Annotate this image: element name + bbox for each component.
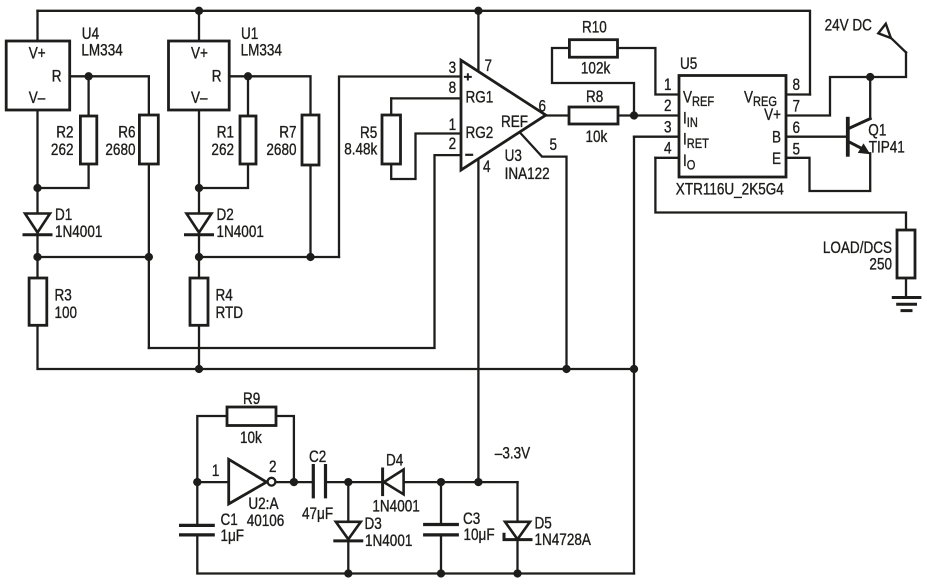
svg-text:3: 3 xyxy=(449,59,457,78)
label U5 pin 7 xyxy=(793,97,801,116)
label R4 value xyxy=(216,304,244,323)
svg-text:R8: R8 xyxy=(586,88,603,107)
wire op-amp REF pin5 down to rail xyxy=(519,132,567,370)
wire U4 V+ riser xyxy=(36,11,38,42)
label R7 designator xyxy=(279,123,296,142)
wire D3 top lead xyxy=(347,482,349,522)
label U5 E xyxy=(772,150,781,169)
label D2 designator xyxy=(217,206,234,225)
svg-text:RG1: RG1 xyxy=(466,88,494,107)
junction C2/D3/D4 xyxy=(344,478,352,486)
junction D1/R3 xyxy=(33,253,41,261)
label U5 IRET xyxy=(683,130,709,151)
label U4 pin V- xyxy=(29,89,46,108)
svg-text:1N4728A: 1N4728A xyxy=(535,531,592,550)
label U4 designator xyxy=(82,25,99,44)
capacitor C1 plates xyxy=(181,525,214,535)
svg-text:U2:A: U2:A xyxy=(248,495,279,514)
wire inverter output to C2 xyxy=(276,481,314,483)
label op-amp pin 7 xyxy=(485,57,493,76)
wire R4 bottom lead xyxy=(198,325,200,369)
transistor Q1 TIP41 base bar xyxy=(846,119,850,155)
label op-amp pin 1 xyxy=(449,116,457,135)
svg-text:E: E xyxy=(772,150,781,169)
label U4 pin V+ xyxy=(29,44,46,63)
junction D4/C3 xyxy=(437,478,445,486)
label U1 pin V+ xyxy=(191,44,208,63)
label R8 designator xyxy=(586,88,603,107)
wire D3 bottom lead xyxy=(347,540,349,574)
svg-text:2: 2 xyxy=(269,458,277,477)
label R5 designator xyxy=(360,124,377,143)
junction R8/R10/IIN xyxy=(630,111,638,119)
label U3 designator xyxy=(505,147,522,166)
wire C3 top lead xyxy=(440,482,442,524)
svg-text:V+: V+ xyxy=(764,106,781,125)
svg-text:XTR116U_2K5G4: XTR116U_2K5G4 xyxy=(676,180,784,199)
label op-amp - input xyxy=(465,154,473,156)
svg-text:REF: REF xyxy=(501,113,528,132)
wire op-amp pin8 RG1 stub xyxy=(391,97,461,99)
svg-text:10k: 10k xyxy=(586,128,608,147)
label 24V DC xyxy=(825,16,872,35)
svg-text:6: 6 xyxy=(793,119,801,138)
label U2 value xyxy=(247,512,285,531)
svg-text:R1: R1 xyxy=(217,123,234,142)
label U3 value xyxy=(505,165,550,184)
24V DC supply connector symbol xyxy=(878,24,891,38)
svg-text:TIP41: TIP41 xyxy=(869,138,905,157)
current source U4 LM334 body xyxy=(6,41,69,110)
resistor R1 body xyxy=(240,116,256,164)
label U2:A designator xyxy=(248,495,279,514)
svg-text:LM334: LM334 xyxy=(241,41,282,60)
wire U5 VREG pin8 stub xyxy=(786,93,810,95)
svg-text:V–: V– xyxy=(191,89,208,108)
svg-text:2: 2 xyxy=(449,135,457,154)
svg-text:R7: R7 xyxy=(279,123,296,142)
svg-text:250: 250 xyxy=(869,255,892,274)
label D1 value xyxy=(55,223,102,242)
svg-text:6: 6 xyxy=(539,97,547,116)
inverter U2:A triangle xyxy=(229,459,267,504)
junction 24V/collector xyxy=(866,73,874,81)
svg-text:D4: D4 xyxy=(386,451,403,470)
junction R7 bottom xyxy=(306,253,314,261)
svg-text:R2: R2 xyxy=(56,123,73,142)
label U5 pin 1 xyxy=(664,76,672,95)
label op-amp pin 8 xyxy=(449,79,457,98)
svg-text:3: 3 xyxy=(664,118,672,137)
wire D1 cathode to R3 xyxy=(36,233,38,279)
svg-text:1N4001: 1N4001 xyxy=(217,223,264,242)
label R10 value xyxy=(581,59,611,78)
label U5 pin 4 xyxy=(664,139,672,158)
label U5 pin 5 xyxy=(793,140,801,159)
label D3 value xyxy=(365,532,412,551)
label R7 value xyxy=(266,141,296,160)
wire U4 V- to D1 xyxy=(36,110,38,214)
wire D5 bottom lead xyxy=(516,539,518,573)
capacitor C2 plates xyxy=(313,466,325,497)
current source U1 LM334 body xyxy=(169,41,230,110)
wire R8 to U5 IIN pin2 xyxy=(618,114,679,116)
svg-text:100: 100 xyxy=(55,304,78,323)
svg-text:1μF: 1μF xyxy=(221,527,245,546)
svg-text:1N4001: 1N4001 xyxy=(365,532,412,551)
label D4 value xyxy=(372,497,419,516)
label R1 value xyxy=(211,141,234,160)
junction U1 V+ on top bus xyxy=(195,7,203,15)
IC U5 XTR116U body xyxy=(679,76,786,178)
label LOAD/DCS xyxy=(823,239,892,258)
label U5 pin 8 xyxy=(793,76,801,95)
resistor R9 body xyxy=(227,407,276,426)
label U5 pin 6 xyxy=(793,119,801,138)
svg-text:262: 262 xyxy=(211,141,234,160)
wire U1 V- to D2 xyxy=(198,110,200,214)
label U1 pin R xyxy=(212,67,222,86)
wire R1 bottom lead xyxy=(199,164,248,188)
svg-text:10μF: 10μF xyxy=(464,526,495,545)
wire IO to LOAD resistor xyxy=(655,158,906,230)
svg-text:D3: D3 xyxy=(365,515,382,534)
label op-amp pin 5 xyxy=(550,136,558,155)
label U4 pin R xyxy=(52,67,62,86)
svg-text:47μF: 47μF xyxy=(302,505,333,524)
svg-text:U3: U3 xyxy=(505,147,522,166)
svg-text:4: 4 xyxy=(664,139,672,158)
wire U5 V+ pin7 to 24V supply xyxy=(786,52,906,115)
resistor R2 body xyxy=(80,116,96,164)
junction pin4/-3.3V node xyxy=(474,478,482,486)
label op-amp RG2 xyxy=(466,124,494,143)
junction IRET on rail xyxy=(630,365,638,373)
label R8 value xyxy=(586,128,608,147)
label R1 designator xyxy=(217,123,234,142)
svg-text:1: 1 xyxy=(664,76,672,95)
label R3 value xyxy=(55,304,78,323)
svg-text:8: 8 xyxy=(449,79,457,98)
label U1 pin V- xyxy=(191,89,208,108)
label U5 VREG xyxy=(744,88,777,109)
label op-amp + input xyxy=(464,73,472,80)
label LOAD value xyxy=(869,255,892,274)
wire R10 right lead to U5 VREF pin1 xyxy=(618,48,679,95)
wire node D2/R7 to pin3 riser xyxy=(199,256,339,258)
wire R5 top lead xyxy=(390,98,392,116)
label op-amp pin 2 xyxy=(449,135,457,154)
wire U1 R pin to R7 xyxy=(228,76,310,115)
label U4 value xyxy=(81,41,122,60)
svg-text:R6: R6 xyxy=(118,123,135,142)
svg-text:4: 4 xyxy=(483,158,491,177)
svg-text:1: 1 xyxy=(212,462,220,481)
wire op-amp pin7 riser xyxy=(477,11,479,76)
wire U1 V+ riser xyxy=(198,11,200,42)
ground symbol xyxy=(893,298,920,311)
svg-text:R4: R4 xyxy=(216,286,233,305)
wire supply connector diagonal xyxy=(891,38,906,52)
label op-amp RG1 xyxy=(466,88,494,107)
wire U5 IRET pin3 stub xyxy=(634,136,679,138)
svg-text:R: R xyxy=(52,67,62,86)
label D3 designator xyxy=(365,515,382,534)
svg-text:D1: D1 xyxy=(55,206,72,225)
junction U1 V-/R1/D2 xyxy=(195,184,203,192)
wire oscillator bottom rail xyxy=(197,535,634,574)
label R2 designator xyxy=(56,123,73,142)
label Q1 value xyxy=(869,138,905,157)
wire rail down to oscillator ground rail xyxy=(633,369,635,574)
svg-text:1N4001: 1N4001 xyxy=(372,497,419,516)
wire U5 B pin6 to Q1 base xyxy=(786,136,847,138)
diode D1 1N4001 xyxy=(25,214,50,233)
svg-text:2680: 2680 xyxy=(266,141,296,160)
resistor R8 body xyxy=(569,107,618,124)
wire D5 top lead xyxy=(516,482,518,522)
label C3 value xyxy=(464,526,495,545)
junction pin7 on top bus xyxy=(474,7,482,15)
svg-text:C2: C2 xyxy=(309,448,326,467)
label U5 designator xyxy=(680,55,697,74)
label R9 designator xyxy=(243,390,260,409)
label U1 designator xyxy=(241,25,258,44)
op-amp U3 INA122 triangle xyxy=(461,60,546,170)
resistor R7 body xyxy=(302,115,319,165)
junction R2/R6 xyxy=(84,72,92,80)
label op-amp pin 6 xyxy=(539,97,547,116)
svg-text:10k: 10k xyxy=(240,429,262,448)
label R6 value xyxy=(105,141,135,160)
svg-text:R: R xyxy=(212,67,222,86)
label D4 designator xyxy=(386,451,403,470)
wire R2 top lead xyxy=(87,76,89,116)
diode D4 1N4001 horizontal xyxy=(384,470,404,495)
wire U4 R pin to R6 xyxy=(69,76,149,115)
wire C1 top lead xyxy=(196,482,198,525)
wire R5 bottom to pin1 RG2 xyxy=(391,134,461,180)
svg-text:R10: R10 xyxy=(582,18,607,37)
label op-amp pin 4 xyxy=(483,158,491,177)
wire top V+ bus from U4 to U5 VREG xyxy=(38,11,811,95)
svg-text:5: 5 xyxy=(793,140,801,159)
svg-text:262: 262 xyxy=(51,141,74,160)
label U5 pin 3 xyxy=(664,118,672,137)
svg-text:1N4001: 1N4001 xyxy=(55,223,102,242)
label U5 IIN xyxy=(683,109,698,130)
label U5 VREF xyxy=(683,88,715,109)
junction U4 V-/R2/D1 xyxy=(33,184,41,192)
wire to op-amp pin2 -input xyxy=(149,155,461,348)
wire inverter input node xyxy=(197,481,230,483)
label R6 designator xyxy=(118,123,135,142)
label C3 designator xyxy=(463,510,480,529)
resistor R5 body xyxy=(382,115,401,164)
label U1 value xyxy=(241,41,282,60)
wire R1 top lead xyxy=(247,76,249,116)
svg-text:102k: 102k xyxy=(581,59,611,78)
svg-text:7: 7 xyxy=(793,97,801,116)
label op-amp pin 3 xyxy=(449,59,457,78)
svg-text:RG2: RG2 xyxy=(466,124,494,143)
label C2 value xyxy=(302,505,333,524)
junction D5 on ground rail xyxy=(513,569,521,577)
label R9 value xyxy=(240,429,262,448)
junction R4 on rail xyxy=(195,365,203,373)
label R5 value xyxy=(344,140,377,159)
svg-text:7: 7 xyxy=(485,57,493,76)
inverter U2:A bubble xyxy=(268,478,276,486)
label Q1 designator xyxy=(868,121,886,140)
wire op-amp pin4 down to -3.3V node xyxy=(477,150,479,482)
junction inverter input/C1/R9 xyxy=(193,478,201,486)
wire U5 IO pin4 stub xyxy=(655,157,679,159)
diode D3 1N4001 xyxy=(336,522,361,540)
transistor Q1 emitter with arrow xyxy=(848,142,861,149)
label C1 designator xyxy=(221,511,238,530)
svg-text:8: 8 xyxy=(793,76,801,95)
svg-text:R3: R3 xyxy=(55,286,72,305)
wire R3 bottom to REF/IRET rail xyxy=(38,325,635,369)
label D2 value xyxy=(217,223,264,242)
wire node D1/R6 xyxy=(38,256,149,258)
label U5 V+ xyxy=(764,106,781,125)
wire R7 bottom lead xyxy=(309,165,311,257)
junction D3 on ground rail xyxy=(344,569,352,577)
svg-text:40106: 40106 xyxy=(247,512,285,531)
wire LOAD to ground xyxy=(905,278,907,298)
svg-text:Q1: Q1 xyxy=(868,121,886,140)
svg-text:B: B xyxy=(772,128,781,147)
wire to op-amp pin3 +input xyxy=(339,77,461,258)
label C2 designator xyxy=(309,448,326,467)
wire R6 bottom lead down xyxy=(148,164,150,348)
svg-text:–3.3V: –3.3V xyxy=(495,444,530,463)
svg-text:R9: R9 xyxy=(243,390,260,409)
label R2 value xyxy=(51,141,74,160)
label D5 value xyxy=(535,531,592,550)
label U5 B xyxy=(772,128,781,147)
label U5 value xyxy=(676,180,784,199)
svg-text:5: 5 xyxy=(550,136,558,155)
label D5 designator xyxy=(535,514,552,533)
wire D2 cathode to R4 xyxy=(198,233,200,279)
junction R1/R7 xyxy=(244,72,252,80)
resistor LOAD/DCS body xyxy=(897,230,915,278)
capacitor C3 plates xyxy=(425,525,458,535)
svg-text:2680: 2680 xyxy=(105,141,135,160)
svg-text:V+: V+ xyxy=(191,44,208,63)
wire R10 left lead to IIN node xyxy=(552,48,634,116)
junction R6/D1 node xyxy=(145,253,153,261)
junction inverter output/R9/C2 xyxy=(290,478,298,486)
wire C2 to D4 xyxy=(326,481,383,483)
svg-text:2: 2 xyxy=(664,97,672,116)
wire R9 right lead xyxy=(276,416,294,482)
svg-text:24V DC: 24V DC xyxy=(825,16,872,35)
wire R9 left lead xyxy=(197,416,227,482)
label R4 designator xyxy=(216,286,233,305)
wire C3 bottom lead xyxy=(440,535,442,574)
wire U5 E pin5 to Q1 emitter xyxy=(786,153,870,191)
svg-text:V–: V– xyxy=(29,89,46,108)
label U5 pin 2 xyxy=(664,97,672,116)
label D1 designator xyxy=(55,206,72,225)
label R10 designator xyxy=(582,18,607,37)
label C1 value xyxy=(221,527,245,546)
diode D2 1N4001 xyxy=(187,214,212,233)
svg-text:8.48k: 8.48k xyxy=(344,140,377,159)
resistor R10 body xyxy=(569,40,617,58)
svg-text:1: 1 xyxy=(449,116,457,135)
svg-text:INA122: INA122 xyxy=(505,165,550,184)
svg-text:U5: U5 xyxy=(680,55,697,74)
resistor R6 body xyxy=(139,115,158,164)
svg-text:RTD: RTD xyxy=(216,304,244,323)
svg-text:V+: V+ xyxy=(29,44,46,63)
svg-text:D2: D2 xyxy=(217,206,234,225)
svg-text:LM334: LM334 xyxy=(81,41,122,60)
label inverter pin 2 xyxy=(269,458,277,477)
wire D4 to -3.3V node and D5 xyxy=(404,481,518,483)
resistor R3 body xyxy=(29,278,47,325)
wire op-amp output pin6 to R8 xyxy=(546,114,569,116)
label -3.3V net xyxy=(495,444,530,463)
zener diode D5 1N4728A xyxy=(505,522,530,540)
wire IRET down to rail xyxy=(633,137,635,369)
wire Q1 collector riser xyxy=(869,77,871,119)
label op-amp REF xyxy=(501,113,528,132)
label U5 IO xyxy=(683,152,695,173)
label R3 designator xyxy=(55,286,72,305)
junction REF on rail xyxy=(562,365,570,373)
junction C3 on ground rail xyxy=(437,569,445,577)
wire R2 bottom lead xyxy=(38,164,89,188)
junction D2/R4 xyxy=(195,253,203,261)
transistor Q1 collector xyxy=(848,119,870,129)
resistor R4 body xyxy=(190,278,208,325)
label inverter pin 1 xyxy=(212,462,220,481)
